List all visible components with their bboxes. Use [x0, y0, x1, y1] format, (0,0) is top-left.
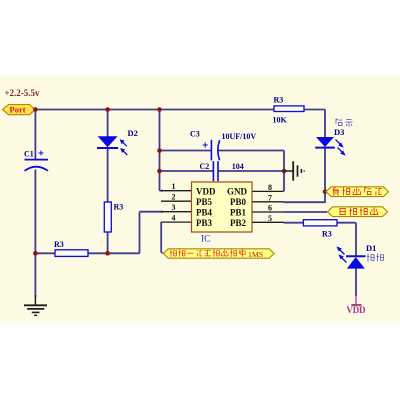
node junction [105, 107, 110, 112]
svg-text:R3: R3 [54, 240, 64, 249]
wire [304, 109, 325, 111]
label 指示 [336, 119, 342, 126]
wire [355, 269, 357, 296]
wire [284, 211, 328, 213]
wire [107, 110, 109, 137]
wire [284, 201, 326, 203]
wire pin stub right [252, 211, 284, 213]
svg-text:R3: R3 [114, 203, 124, 212]
wire [161, 252, 163, 255]
resistor R3 [54, 240, 88, 256]
svg-text:104: 104 [232, 162, 244, 171]
svg-text:+2.2-5.5v: +2.2-5.5v [4, 88, 40, 98]
svg-text:R3: R3 [322, 230, 332, 239]
svg-text:7: 7 [268, 193, 272, 202]
wire [219, 170, 284, 172]
svg-text:D3: D3 [334, 127, 344, 137]
capacitor C2 [200, 161, 244, 181]
svg-text:8: 8 [268, 183, 272, 192]
wire pin stub left [161, 200, 192, 202]
svg-text:GND: GND [227, 186, 248, 196]
wire [324, 148, 326, 202]
wire [160, 170, 213, 172]
node junction [282, 169, 287, 174]
svg-text:PB2: PB2 [230, 218, 247, 228]
port Port [3, 105, 36, 115]
svg-text:PB3: PB3 [196, 218, 213, 228]
resistor R3 [303, 220, 337, 239]
svg-text:10K: 10K [273, 116, 288, 125]
capacitor C1 [24, 150, 48, 171]
wire [324, 110, 326, 138]
node junction [33, 251, 38, 256]
svg-text:3: 3 [172, 203, 176, 212]
wire pin stub right [252, 190, 284, 192]
svg-text:PB0: PB0 [230, 197, 247, 207]
wire [284, 222, 304, 224]
wire pin stub left [161, 190, 192, 192]
svg-text:1MS: 1MS [248, 250, 263, 259]
ground [24, 295, 47, 315]
node junction [157, 148, 162, 153]
wire [355, 223, 357, 257]
diode D3 [315, 127, 345, 155]
wire [160, 150, 211, 152]
node junction [157, 169, 162, 174]
node junction [157, 107, 162, 112]
wire pin stub left [161, 221, 192, 223]
svg-text:6: 6 [268, 204, 272, 213]
svg-text:5: 5 [268, 214, 272, 223]
resistor R3 [104, 202, 123, 232]
net label 自锁输出 [328, 207, 388, 217]
svg-text:4: 4 [172, 214, 176, 223]
wire [160, 190, 164, 192]
wire [34, 170, 36, 298]
svg-text:C1: C1 [24, 150, 34, 159]
wire [140, 211, 164, 213]
svg-text:D1: D1 [366, 243, 376, 253]
svg-text:VDD: VDD [346, 305, 366, 315]
svg-text:PB1: PB1 [230, 207, 247, 217]
IC U1 [192, 182, 253, 245]
wire [283, 151, 285, 192]
svg-text:2: 2 [172, 193, 176, 202]
net label 触发一次正输出脉冲1MS [163, 249, 274, 259]
svg-text:10UF/10V: 10UF/10V [222, 132, 257, 141]
svg-text:PB5: PB5 [196, 197, 213, 207]
wire [34, 110, 36, 160]
diode D1 [336, 243, 376, 268]
wire pin stub left [161, 211, 192, 213]
svg-text:Port: Port [10, 105, 26, 115]
diode D2 [97, 128, 138, 155]
wire [160, 222, 162, 252]
wire [35, 109, 274, 111]
ground [284, 161, 304, 180]
wire pin stub right [252, 201, 284, 203]
svg-text:R3: R3 [274, 96, 284, 105]
node junction [323, 189, 328, 194]
capacitor C3 [190, 130, 256, 161]
net label 负输出启动 [326, 187, 388, 197]
wire [159, 110, 161, 191]
svg-text:1: 1 [172, 182, 176, 191]
wire [139, 212, 141, 254]
svg-text:IC: IC [201, 235, 211, 245]
svg-text:C2: C2 [200, 162, 210, 171]
svg-text:PB4: PB4 [196, 207, 213, 217]
schematic background [0, 77, 400, 320]
wire [35, 252, 139, 254]
svg-text:VDD: VDD [196, 186, 216, 196]
svg-text:C3: C3 [190, 130, 200, 139]
wire [218, 150, 284, 152]
node junction [33, 107, 38, 112]
wire pin stub right [252, 221, 284, 223]
svg-text:D2: D2 [128, 128, 138, 138]
wire [107, 148, 109, 253]
wire [337, 222, 356, 224]
label 发射 [367, 254, 374, 262]
resistor R3 10K [273, 96, 305, 125]
power VDD [346, 296, 366, 315]
node junction [105, 251, 110, 256]
